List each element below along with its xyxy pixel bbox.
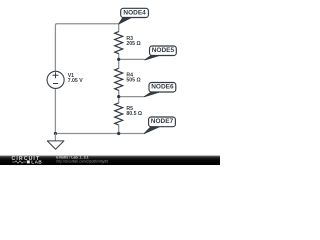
resistor R4 xyxy=(118,59,120,96)
svg-text:NODE6: NODE6 xyxy=(151,84,174,91)
svg-text:NODE7: NODE7 xyxy=(151,118,174,125)
junction node D (bottom of R5) xyxy=(117,132,120,135)
voltage source V1 xyxy=(47,71,64,88)
flag NODE6 xyxy=(145,83,176,97)
svg-text:NODE5: NODE5 xyxy=(152,47,175,54)
svg-text:7.05 V: 7.05 V xyxy=(68,78,84,84)
resistor R3 xyxy=(118,24,120,60)
wire top horizontal + left vertical xyxy=(55,24,118,72)
svg-text:NODE4: NODE4 xyxy=(123,9,146,16)
flag NODE7 xyxy=(144,117,175,133)
junction node A (R3/R4) xyxy=(117,58,120,61)
resistor R5 xyxy=(118,97,120,134)
footer CircuitLab logo xyxy=(12,156,43,164)
svg-text:80.5 Ω: 80.5 Ω xyxy=(126,111,142,117)
wire bottom horizontal xyxy=(55,133,144,135)
junction node B (R4/R5) xyxy=(117,95,120,98)
svg-text:LAB: LAB xyxy=(31,159,42,164)
wire stub to NODE5 xyxy=(119,58,145,60)
flag NODE4 xyxy=(119,8,149,24)
wire source bottom vertical xyxy=(54,88,56,133)
flag NODE5 xyxy=(145,46,176,60)
junction node C (bottom left) xyxy=(54,132,57,135)
svg-text:205 Ω: 205 Ω xyxy=(126,41,140,47)
svg-text:http://circuitlab.com/c/jbc6bm: http://circuitlab.com/c/jbc6bm8jy85 xyxy=(56,159,108,163)
svg-text:505 Ω: 505 Ω xyxy=(126,78,140,84)
wire stub to NODE6 xyxy=(119,96,145,98)
ground xyxy=(54,134,56,142)
